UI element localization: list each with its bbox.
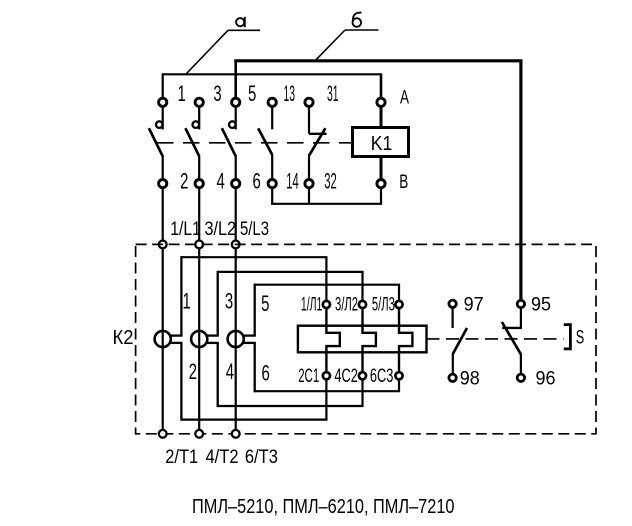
- svg-text:5: 5: [248, 81, 256, 106]
- pole label 4: [226, 359, 234, 384]
- svg-text:2С1: 2С1: [298, 366, 319, 387]
- wire bus a drop to node A: [380, 73, 383, 98]
- wire node A to coil K1: [380, 107, 383, 128]
- svg-text:A: A: [400, 87, 409, 109]
- svg-text:4: 4: [226, 359, 234, 384]
- pin label 5: [248, 81, 256, 106]
- pin label 96: [536, 368, 556, 390]
- pin label A: [400, 87, 409, 109]
- terminal label 1/L1: [170, 218, 201, 240]
- wire column through K2 to 2/T1: [162, 249, 164, 429]
- wire 5/L3 column upper: [235, 188, 237, 240]
- terminal label 3/L2: [205, 218, 237, 240]
- terminal circle 5/L3: [232, 241, 240, 249]
- thermal label 1/L1: [301, 294, 323, 315]
- svg-text:6/T3: 6/T3: [245, 446, 278, 468]
- contact thermal relay 97-98 (NO): [453, 308, 467, 375]
- enclosure K2 dashed box: [136, 244, 596, 433]
- pin label 32: [324, 169, 337, 194]
- wire column through K2 to 6/T3: [235, 249, 237, 429]
- contactor K2 pole circle 1-2: [155, 331, 171, 347]
- svg-text:1/L1: 1/L1: [170, 218, 201, 240]
- svg-text:2: 2: [180, 169, 188, 194]
- svg-text:B: B: [399, 171, 408, 193]
- thermal terminal circle 1/Л1: [323, 301, 330, 308]
- svg-text:1: 1: [178, 81, 186, 106]
- svg-text:S: S: [576, 328, 585, 349]
- svg-text:5/L3: 5/L3: [240, 218, 269, 240]
- svg-text:4С2: 4С2: [334, 366, 358, 387]
- svg-text:98: 98: [460, 367, 480, 389]
- pole label 2: [189, 359, 197, 384]
- terminal circle 6/T3: [232, 430, 240, 438]
- caption PML-5210, PML-6210, PML-7210: [192, 495, 455, 518]
- wire 3/L2 column upper: [198, 188, 200, 240]
- svg-text:5: 5: [261, 291, 269, 316]
- thermal terminal circle 6С3: [395, 372, 402, 379]
- contact K1 main pole 5-6: [222, 107, 236, 180]
- svg-text:4: 4: [217, 169, 225, 194]
- svg-text:31: 31: [327, 81, 339, 106]
- wire bus b: [234, 59, 521, 62]
- terminal circle bottom of 2: [159, 180, 167, 188]
- wire 32 down: [308, 188, 310, 204]
- terminal circle top of 1: [159, 98, 167, 106]
- terminal circle bottom of 4: [195, 180, 203, 188]
- terminal circle 98: [449, 374, 456, 381]
- terminal circle 97: [449, 300, 456, 307]
- terminal label 6/T3: [245, 446, 278, 468]
- svg-text:6: 6: [262, 361, 270, 386]
- terminal circle bottom of 32: [305, 180, 313, 188]
- terminal circle top of 13: [268, 98, 276, 106]
- coil K1: [353, 128, 409, 157]
- terminal circle 96: [517, 374, 524, 381]
- label K2: [113, 326, 134, 349]
- svg-text:2/T1: 2/T1: [165, 446, 198, 468]
- terminal circle 3/L2: [195, 241, 203, 249]
- terminal circle 4/T2: [195, 430, 203, 438]
- mechanical linkage dashed line (thermal to contacts 97-98, 95-96, S): [427, 338, 564, 340]
- pin label 95: [531, 294, 551, 316]
- thermal terminal circle 3/Л2: [359, 301, 366, 308]
- terminal circle 95: [517, 300, 524, 307]
- terminal circle 1/L1: [159, 241, 167, 249]
- terminal label 2/T1: [165, 446, 198, 468]
- contact K1 main pole 3-4: [185, 107, 199, 180]
- node S (test button bracket): [564, 325, 584, 349]
- svg-text:32: 32: [324, 169, 337, 194]
- pin label 4: [217, 169, 225, 194]
- svg-text:1: 1: [183, 289, 191, 314]
- svg-text:ПМЛ–5210, ПМЛ–6210, ПМЛ–7210: ПМЛ–5210, ПМЛ–6210, ПМЛ–7210: [192, 495, 455, 518]
- pin label B: [399, 171, 408, 193]
- wire coil K1 to node B: [380, 156, 383, 179]
- svg-text:96: 96: [536, 368, 556, 390]
- pole label 1: [183, 289, 191, 314]
- wire B down: [380, 188, 382, 204]
- svg-text:4/T2: 4/T2: [206, 446, 239, 468]
- svg-text:14: 14: [286, 169, 299, 194]
- thermal terminal circle 2С1: [323, 372, 330, 379]
- svg-text:5/Л3: 5/Л3: [372, 294, 395, 315]
- wire bus a: [163, 73, 381, 75]
- wire column through K2 to 4/T2: [198, 249, 200, 429]
- svg-text:13: 13: [284, 81, 296, 106]
- thermal terminal circle 5/Л3: [395, 301, 402, 308]
- thermal label 5/L3: [372, 294, 395, 315]
- wire bus b right drop to contact 95: [519, 60, 522, 301]
- pin label 98: [460, 367, 480, 389]
- pole label 3: [225, 289, 233, 314]
- terminal circle bottom of 6: [232, 180, 240, 188]
- contact K1 main pole 1-2: [149, 107, 163, 180]
- wire loop pole 1/2 to thermal element: [169, 256, 328, 421]
- pole label 5: [261, 291, 269, 316]
- thermal label 4C2: [334, 366, 358, 387]
- svg-text:3: 3: [213, 81, 221, 106]
- mechanical linkage dashed line (contacts to K1 coil): [157, 142, 352, 144]
- thermal terminal circle 4С2: [359, 372, 366, 379]
- thermal label 3/L2: [335, 294, 358, 315]
- terminal label 5/L3: [240, 218, 269, 240]
- terminal circle top of 31: [305, 98, 313, 106]
- svg-text:97: 97: [464, 294, 484, 316]
- thermal heater element 3: [399, 309, 412, 372]
- pin label 97: [464, 294, 484, 316]
- svg-text:1/Л1: 1/Л1: [301, 294, 323, 315]
- svg-text:K1: K1: [371, 132, 393, 155]
- svg-text:6С3: 6С3: [370, 366, 394, 387]
- pin label 1: [178, 81, 186, 106]
- svg-text:3: 3: [225, 289, 233, 314]
- pin label 14: [286, 169, 299, 194]
- thermal heater element 2: [363, 309, 376, 372]
- terminal circle top of 3: [195, 98, 203, 106]
- contact K1 aux 13-14 (NO): [258, 107, 272, 180]
- pin label 6: [252, 169, 260, 194]
- wire loop pole 3/4 to thermal element: [206, 271, 364, 407]
- node a (label with leader line): [187, 17, 261, 74]
- terminal circle top of A: [377, 98, 385, 106]
- svg-text:2: 2: [189, 359, 197, 384]
- thermal label 2C1: [298, 366, 319, 387]
- wire 1/L1 column upper: [162, 188, 164, 240]
- terminal circle 2/T1: [159, 430, 167, 438]
- pole label 6: [262, 361, 270, 386]
- pin label 2: [180, 169, 188, 194]
- svg-text:95: 95: [531, 294, 551, 316]
- pin label 31: [327, 81, 339, 106]
- terminal circle bottom of B: [377, 180, 385, 188]
- node b (label with leader line): [316, 13, 379, 60]
- thermal relay heater box: [298, 326, 427, 353]
- thermal heater element 1: [326, 309, 339, 372]
- contactor K2 pole circle 5-6: [228, 331, 244, 347]
- svg-text:К2: К2: [113, 326, 134, 349]
- wire loop pole 5/6 to thermal element: [242, 284, 400, 393]
- pin label 13: [284, 81, 296, 106]
- terminal circle top of 5: [232, 98, 240, 106]
- contact K1 aux 31-32 (NC): [309, 107, 327, 180]
- terminal label 4/T2: [206, 446, 239, 468]
- pin label 3: [213, 81, 221, 106]
- thermal label 6C3: [370, 366, 394, 387]
- svg-text:3/L2: 3/L2: [205, 218, 237, 240]
- wire bus b drop to contact 5: [234, 60, 237, 99]
- svg-text:6: 6: [252, 169, 260, 194]
- contactor K2 pole circle 3-4: [191, 331, 207, 347]
- terminal circle bottom of 14: [268, 180, 276, 188]
- svg-text:3/Л2: 3/Л2: [335, 294, 358, 315]
- wire bus a drop to contact 1: [162, 73, 164, 98]
- wire aux collector bus: [271, 203, 382, 205]
- contact thermal relay 95-96 (NC): [502, 308, 522, 374]
- wire 14 down: [271, 188, 273, 204]
